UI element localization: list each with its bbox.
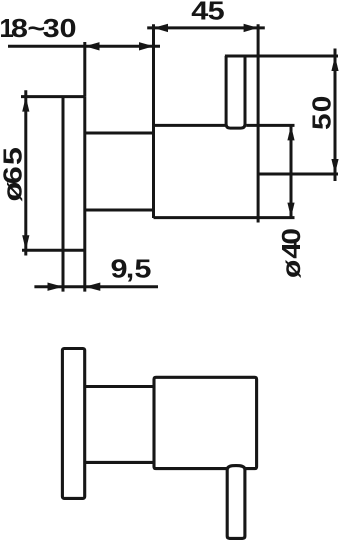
arrowhead d40 bottom: [287, 203, 294, 218]
lower view spout tube: [227, 469, 245, 538]
lower view spout dome top: [227, 466, 245, 470]
extension line 45 left / body left edge upper: [152, 24, 155, 218]
arrowhead 45 left: [154, 24, 169, 32]
arrowhead d65 bottom: [22, 235, 29, 250]
wall plate upper view right edge with 9,5 extension: [83, 97, 86, 292]
arrowhead d65 top: [22, 97, 29, 112]
dimension text 18~30: [0, 13, 77, 43]
dimension text d40 rotated: [277, 228, 306, 278]
svg-text:ø40: ø40: [277, 228, 306, 278]
dimension line 50: [334, 49, 337, 182]
arrowhead d40 top: [287, 125, 294, 140]
lower view stem bottom line: [85, 461, 154, 464]
top edge line with 50 extension: [225, 55, 338, 58]
stem upper view bottom line: [85, 209, 154, 212]
svg-text:50: 50: [307, 96, 336, 130]
wall plate upper view bottom edge / d65 extension: [22, 249, 85, 252]
wall plate upper view left edge with 9,5 extension: [62, 97, 65, 292]
arrowhead left at plate edge: [85, 42, 100, 50]
arrowhead 9,5 pointing left: [85, 283, 101, 291]
stem upper view top line: [85, 132, 154, 135]
svg-text:9,5: 9,5: [111, 255, 152, 284]
dimension text 50 rotated: [307, 96, 336, 130]
arrowhead right at body edge: [139, 42, 154, 50]
50 bottom extension line at axis: [258, 173, 338, 176]
body upper view top edge right segment with d40 extension: [246, 124, 294, 127]
arrowhead 9,5 pointing right: [48, 283, 64, 291]
lower view stem top line: [85, 385, 154, 388]
arrowhead 50 top: [331, 56, 338, 71]
arrowhead 45 right: [244, 24, 259, 32]
svg-text:ø65: ø65: [0, 147, 28, 201]
body upper view right edge: [257, 24, 260, 222]
extension line at plate right edge top: [83, 42, 86, 97]
dimension text d65 rotated: [0, 147, 28, 201]
lower view wall plate: [62, 349, 84, 499]
svg-text:45: 45: [191, 0, 225, 26]
dimension line 9,5: [34, 285, 158, 288]
body upper view top edge left segment: [154, 124, 226, 127]
wall plate upper view top edge with d65 extension: [21, 95, 85, 98]
arrowhead 50 bottom: [331, 159, 338, 174]
dimension text 9,5: [111, 255, 152, 284]
lower view body with bottom gap at spout: [154, 377, 257, 468]
body upper view bottom edge with d40 extension: [154, 216, 295, 219]
dimension line 18~30: [8, 45, 160, 48]
svg-text:8~30: 8~30: [11, 14, 77, 43]
dimension text 45: [191, 0, 225, 26]
top tube outlet upper view with rounded bottom: [226, 56, 245, 128]
dimension line 45: [147, 26, 265, 29]
dimension line diameter 40: [290, 125, 293, 217]
dimension line diameter 65: [24, 90, 27, 255]
